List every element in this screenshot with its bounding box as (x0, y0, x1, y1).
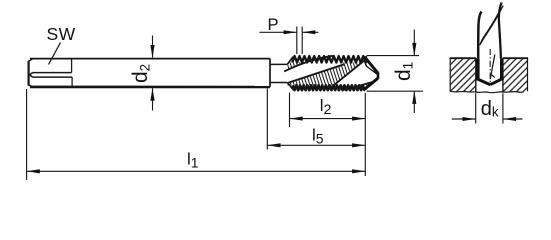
SW leader line (49, 43, 61, 65)
workpiece left block (hatched) (450, 58, 476, 92)
neck (270, 64, 287, 82)
drill body (above hole) (478, 3, 503, 59)
dk dimension (452, 93, 523, 123)
l2 dimension (290, 93, 366, 176)
drill point cone (476, 78, 490, 85)
workpiece bottom break line (wavy) (450, 91, 524, 93)
P dimension (260, 27, 319, 55)
svg-text:SW: SW (47, 24, 76, 44)
tap tip chamfer (363, 57, 378, 90)
l1 dimension (27, 89, 366, 180)
drill centerline (dash-dot) (489, 49, 491, 85)
shank end shoulder (269, 59, 271, 87)
l5 dimension (267, 89, 365, 150)
drill spiral flute lines (480, 6, 503, 45)
workpiece right block (hatched) (503, 58, 528, 92)
square drive (SW flats) (30, 59, 73, 87)
flute band 1 (white spiral flute) (284, 56, 344, 83)
tap thread crest zigzag (bottom) (293, 85, 365, 90)
svg-text:P: P (268, 16, 279, 34)
tap thread crest zigzag (top) (292, 56, 366, 62)
d2 dimension (152, 36, 154, 111)
drill in hole (476, 55, 504, 85)
tap shank outline (28, 59, 270, 87)
thread core hatch (288, 63, 368, 86)
d1 dimension (367, 30, 424, 114)
thread entry chamfer (287, 57, 293, 90)
flute band 2 with tip (white region) (333, 60, 378, 90)
